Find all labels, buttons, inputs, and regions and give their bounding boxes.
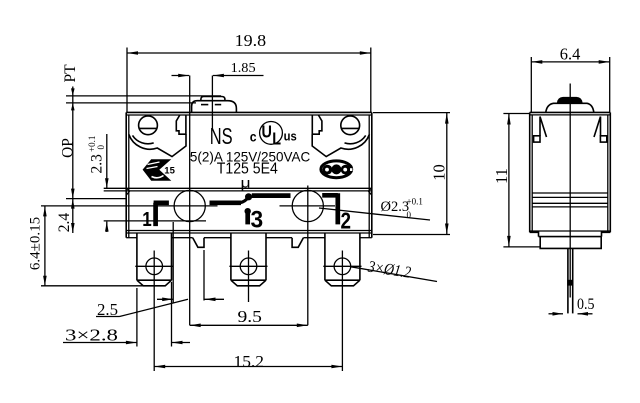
svg-text:Ø2.3: Ø2.3 — [381, 199, 410, 215]
svg-text:2: 2 — [341, 209, 351, 234]
dim 2.4 left — [56, 199, 75, 233]
svg-text:6.4±0.15: 6.4±0.15 — [28, 217, 44, 270]
svg-text:0: 0 — [96, 145, 106, 150]
terminal 2 spring bracket — [322, 193, 338, 224]
side view rubber cap (black) — [557, 97, 583, 103]
left screw boss circle — [129, 115, 186, 157]
side view base step — [530, 232, 611, 248]
dim 1.85 — [172, 61, 264, 77]
svg-text:6.4: 6.4 — [560, 45, 581, 64]
svg-text:L: L — [272, 129, 281, 149]
right screw boss circle + wing (mirrored) — [312, 115, 369, 157]
seam notch right edge — [368, 188, 371, 195]
svg-text:c: c — [250, 129, 257, 145]
side view centerline — [569, 84, 571, 298]
svg-text:2.5: 2.5 — [97, 300, 118, 319]
svg-text:10: 10 — [430, 164, 449, 181]
bottom tab left — [193, 238, 204, 248]
body bottom shelf segments — [126, 237, 372, 239]
terminal 2 — [325, 233, 360, 286]
svg-text:11: 11 — [492, 168, 511, 184]
svg-text:15.2: 15.2 — [234, 352, 265, 371]
svg-text:1: 1 — [142, 208, 151, 231]
svg-text:0: 0 — [407, 210, 412, 220]
side view band lines — [532, 193, 608, 207]
cert arrow logo — [143, 159, 176, 181]
svg-text:T125 5E4: T125 5E4 — [217, 161, 278, 178]
left wing tab — [176, 115, 186, 134]
dim 3x2.8 — [63, 282, 190, 347]
side view body — [530, 112, 611, 232]
dim 15.2 — [154, 352, 342, 371]
terminal number labels — [142, 208, 151, 231]
lever pivot dot — [245, 193, 252, 200]
CQC oval mark — [321, 161, 353, 178]
svg-text:3×2.8: 3×2.8 — [65, 326, 118, 345]
mu symbol — [241, 176, 251, 191]
svg-text:1.85: 1.85 — [231, 61, 256, 76]
dim 11 side left — [492, 114, 540, 247]
svg-text:3: 3 — [251, 206, 264, 233]
svg-text:U: U — [262, 122, 272, 142]
dim 19.8 top — [127, 31, 371, 112]
vertical line through circle1 (1.85 ext + 9.5 ext) — [189, 76, 191, 326]
front view switch body outline — [126, 112, 372, 237]
side view corner wedge right — [594, 117, 601, 138]
svg-text:19.8: 19.8 — [235, 31, 267, 50]
terminal 1 spring bracket — [154, 203, 169, 226]
svg-text:9.5: 9.5 — [238, 307, 262, 326]
svg-text:2.4: 2.4 — [56, 213, 73, 233]
svg-text:0.5: 0.5 — [577, 296, 595, 313]
UL mark — [250, 121, 297, 149]
dim 10 right — [373, 113, 450, 235]
terminal 1 — [137, 233, 172, 286]
dim 6.4 side top — [531, 45, 609, 113]
dim 3xØ1.2 leader — [351, 257, 437, 282]
dim OP left — [60, 138, 127, 199]
dim 0.5 side bottom — [549, 296, 595, 316]
seam notch left edge — [126, 188, 129, 195]
svg-text:+0.1: +0.1 — [407, 197, 423, 207]
dim 9.5 — [190, 307, 308, 327]
side view lead wire — [567, 248, 569, 313]
svg-text:PT: PT — [62, 64, 79, 83]
vertical line plunger center (1.85 right ext) — [211, 76, 213, 131]
left wing swoosh — [129, 134, 186, 156]
movable contact blade — [252, 193, 291, 198]
terminal 3 stub — [245, 208, 251, 214]
side view plunger dome — [546, 103, 594, 112]
svg-text:μ: μ — [241, 176, 251, 191]
dim 6.4±0.15 left — [28, 206, 144, 285]
svg-text:NS: NS — [210, 124, 233, 149]
NS logo text — [210, 124, 233, 149]
side view corner wedge left — [540, 117, 547, 138]
bottom tab right — [292, 238, 303, 248]
vertical line through circle2 (9.5 ext) — [307, 186, 309, 326]
svg-text:us: us — [284, 129, 297, 144]
svg-text:OP: OP — [60, 138, 77, 158]
contact circle 1 — [174, 190, 205, 221]
contact centerline horizontal — [41, 205, 218, 207]
plunger dome — [192, 101, 237, 113]
case seam line — [104, 187, 372, 189]
svg-text:2.3: 2.3 — [88, 154, 105, 174]
dim PT left — [62, 64, 221, 233]
plunger tip — [201, 97, 225, 101]
svg-text:15: 15 — [164, 166, 175, 177]
terminal 3 — [231, 233, 266, 286]
dim 2.5 — [96, 222, 224, 319]
dim 2.3 +0.1/0 left — [87, 134, 206, 232]
lever left segment — [210, 200, 242, 205]
dim Ø2.3 +0.1/0 leader — [319, 197, 430, 221]
contact circle 2 — [292, 190, 323, 221]
